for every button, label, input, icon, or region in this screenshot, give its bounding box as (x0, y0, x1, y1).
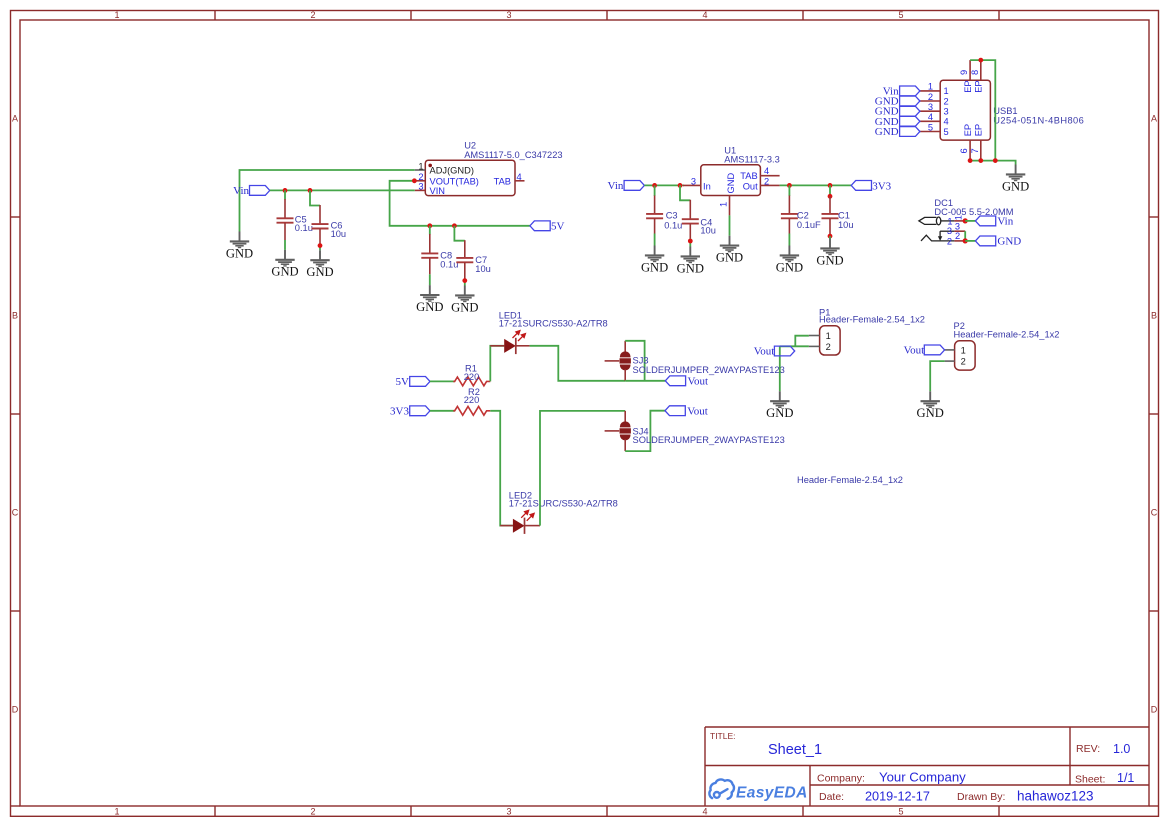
svg-text:Out: Out (743, 182, 758, 192)
junction 5V rail at C8 (427, 223, 432, 228)
capacitor C2 (781, 196, 798, 234)
junction bottom rail pin7 (978, 158, 983, 163)
ground P1 (766, 391, 793, 420)
junction Out rail at C1 (828, 183, 833, 188)
svg-text:220: 220 (464, 372, 480, 382)
svg-text:5V: 5V (396, 376, 410, 388)
svg-text:1.0: 1.0 (1113, 742, 1130, 756)
P2 pin 1 stub (945, 349, 955, 351)
USB1 pin 2 stub (920, 100, 940, 102)
U2 pin 1 dot (428, 164, 432, 168)
capacitor C3 (646, 196, 663, 234)
svg-text:Your Company: Your Company (879, 770, 966, 785)
wire C6 top L (310, 190, 320, 205)
svg-text:0.1u: 0.1u (440, 259, 458, 269)
junction top EP rail pin8 (978, 58, 983, 63)
capacitor C5 (277, 199, 294, 240)
LED2 cathode bar (524, 518, 526, 534)
svg-text:2: 2 (418, 172, 423, 182)
capacitor C1 (822, 196, 839, 236)
P2 pin 2 stub (945, 360, 955, 362)
DC1 pin 3 switch symbol (940, 231, 954, 237)
svg-text:Vout: Vout (754, 346, 775, 358)
regulator U2 box (425, 160, 515, 195)
svg-text:0.1uF: 0.1uF (797, 220, 821, 230)
USB1 pin 3 stub (920, 110, 940, 112)
svg-text:2: 2 (764, 176, 769, 186)
svg-text:C1: C1 (838, 211, 850, 221)
svg-text:Sheet:: Sheet: (1075, 774, 1105, 786)
SJ3 loop wire to Vout (625, 341, 644, 381)
USB connector USB1 box (940, 80, 990, 140)
junction In rail at C4 (678, 183, 683, 188)
net flag GND (USB pin3) (900, 106, 920, 116)
svg-text:VOUT(TAB): VOUT(TAB) (430, 176, 479, 186)
junction In rail at C3 (652, 183, 657, 188)
svg-text:Sheet_1: Sheet_1 (768, 742, 822, 758)
svg-text:3: 3 (691, 176, 696, 186)
ground left of Vin (226, 232, 253, 261)
wire R2 to LED2 (490, 411, 513, 526)
svg-text:EP: EP (963, 124, 973, 136)
SJ4 loop wire to Vout (625, 411, 665, 451)
svg-text:2: 2 (955, 231, 960, 241)
ground C2 (776, 246, 803, 275)
LED1 anode stub (490, 345, 504, 347)
wire C4 top L (680, 185, 690, 200)
wire C1 top (829, 185, 831, 197)
USB1 pin 1 stub (920, 90, 940, 92)
svg-text:4: 4 (702, 10, 707, 20)
svg-text:hahawoz123: hahawoz123 (1017, 789, 1094, 804)
net flag 5V (R1) (410, 377, 430, 387)
wire U1 pin1 to ground (729, 215, 731, 235)
U1 pin 4 stub TAB (760, 175, 779, 177)
U1 pin 3 stub (683, 184, 701, 186)
svg-text:10u: 10u (475, 264, 491, 274)
junction Out rail at C2 (787, 183, 792, 188)
svg-text:D: D (12, 705, 19, 715)
frame column labels bottom (114, 807, 903, 817)
svg-text:VIN: VIN (430, 186, 446, 196)
U2 pin 2 stub (417, 180, 426, 182)
svg-text:TITLE:: TITLE: (710, 731, 736, 741)
wire C8 top (429, 226, 431, 235)
svg-text:4: 4 (928, 112, 933, 122)
ground C5 (271, 250, 298, 279)
P1 pin 2 stub (809, 345, 820, 347)
SJ4 top pad (620, 421, 631, 427)
DC1 pin 3 arrowhead (938, 236, 942, 241)
frame row ticks right (1149, 217, 1159, 611)
C6 pin end dot (318, 243, 323, 248)
svg-text:Vout: Vout (688, 376, 709, 388)
SJ3 center pad (620, 358, 631, 363)
wire C8 bottom (429, 274, 431, 285)
svg-text:Vout: Vout (687, 406, 708, 418)
svg-text:Header-Female-2.54_1x2: Header-Female-2.54_1x2 (819, 315, 925, 325)
wire C5 top (284, 190, 286, 199)
svg-text:5: 5 (944, 127, 949, 137)
junction on Vin rail at C5 (283, 188, 288, 193)
svg-text:5V: 5V (551, 221, 565, 233)
svg-text:GND: GND (997, 236, 1021, 248)
wire ADJ to ground rail (240, 170, 415, 232)
wire P1 to ground (779, 346, 781, 391)
svg-text:1: 1 (418, 161, 423, 171)
net flag Vout (SJ3) (665, 376, 685, 386)
junction 5V rail at C7 (452, 223, 457, 228)
SJ4 left stub (605, 430, 620, 432)
svg-text:220: 220 (464, 395, 480, 405)
svg-text:2: 2 (826, 342, 831, 352)
svg-text:0.1u: 0.1u (295, 223, 313, 233)
svg-text:C: C (1151, 508, 1158, 518)
svg-text:ADJ(GND): ADJ(GND) (430, 166, 474, 176)
solder jumper SJ4 top pin (624, 411, 626, 423)
svg-text:B: B (12, 311, 18, 321)
junction on Vin rail at C6 (308, 188, 313, 193)
frame column ticks bottom (10, 806, 1159, 816)
wire USB top EP rail (970, 60, 995, 161)
svg-text:5: 5 (898, 807, 903, 817)
C1 bottom pin dot (828, 234, 833, 239)
LED2 cathode stub (525, 525, 541, 527)
capacitor C6 (312, 205, 329, 244)
ground USB (1002, 165, 1029, 194)
ground C8 (416, 285, 443, 314)
USB1 pin 8 stub top (980, 60, 982, 80)
SJ3 bottom pad (620, 364, 631, 370)
svg-text:4: 4 (764, 166, 769, 176)
svg-text:In: In (703, 182, 711, 192)
svg-text:17-21SURC/S530-A2/TR8: 17-21SURC/S530-A2/TR8 (499, 319, 608, 329)
wire C3 top (654, 185, 656, 196)
svg-text:17-21SURC/S530-A2/TR8: 17-21SURC/S530-A2/TR8 (509, 498, 618, 508)
frame column labels top (114, 10, 903, 20)
net flag GND (DC1) (975, 236, 995, 246)
svg-text:SJ3: SJ3 (633, 356, 649, 366)
wire LED2 to SJ4 top rail (540, 411, 625, 526)
U1 pin 2 stub Out (760, 184, 779, 186)
DC1 barrel pin symbol (919, 217, 955, 225)
svg-text:A: A (12, 114, 18, 124)
net flag GND (USB pin5) (900, 127, 920, 137)
U2 pin 3 stub (415, 189, 426, 191)
resistor R1 (453, 377, 490, 386)
wire Vin to U2 pin 3 (270, 189, 415, 191)
svg-text:2: 2 (310, 807, 315, 817)
ground C4 (677, 247, 704, 276)
SJ3 left stub (605, 360, 620, 362)
wire C1 bottom (829, 236, 831, 238)
wire SJ3 to Vout flag (625, 380, 665, 382)
svg-text:A: A (1151, 114, 1157, 124)
svg-text:Drawn By:: Drawn By: (957, 791, 1005, 803)
net flag Vin (U2) (249, 186, 269, 196)
svg-text:Vin: Vin (997, 216, 1013, 228)
net flag 3V3 (R2) (410, 406, 430, 416)
svg-text:10u: 10u (700, 225, 716, 235)
C4 pin end dot (688, 239, 693, 244)
wire 3V3 to R2 (430, 410, 455, 412)
svg-text:REV:: REV: (1076, 743, 1100, 755)
USB1 pin 5 stub (920, 131, 940, 133)
C7 pin end dot (462, 278, 467, 283)
svg-text:2: 2 (947, 237, 952, 247)
wire U2 VOUT to 5V rail (390, 181, 530, 226)
svg-text:Date:: Date: (819, 791, 844, 803)
svg-text:3: 3 (506, 807, 511, 817)
net flag Vout (SJ4) (665, 406, 685, 416)
capacitor C8 (421, 234, 438, 274)
header P1 box (820, 326, 841, 355)
P1 pin 1 stub (809, 335, 820, 337)
capacitor C4 (682, 200, 699, 239)
solder jumper SJ3 top pin (624, 341, 626, 353)
wire Vin to U1 In (644, 184, 684, 186)
svg-text:C: C (12, 508, 19, 518)
frame row labels right (1151, 114, 1158, 715)
LED1 cathode bar (515, 338, 517, 354)
svg-text:4: 4 (517, 172, 522, 182)
svg-text:5: 5 (898, 10, 903, 20)
ground C6 (306, 250, 333, 279)
C1 top pin dot (828, 194, 833, 199)
svg-text:1: 1 (961, 345, 966, 355)
net flag Vin (DC1) (975, 216, 995, 226)
resistor R2 (453, 406, 490, 415)
svg-text:2: 2 (944, 96, 949, 106)
svg-text:3V3: 3V3 (390, 406, 409, 418)
net flag GND (USB pin4) (900, 116, 920, 126)
wire P1 pin1 riser (795, 336, 809, 347)
svg-text:1/1: 1/1 (1117, 771, 1134, 785)
svg-text:TAB: TAB (740, 171, 757, 181)
svg-text:U254-051N-4BH806: U254-051N-4BH806 (993, 116, 1084, 126)
net flag Vout (P2) (924, 345, 944, 355)
svg-text:AMS1117-5.0_C347223: AMS1117-5.0_C347223 (464, 150, 562, 160)
svg-text:4: 4 (944, 117, 949, 127)
svg-text:SOLDERJUMPER_2WAYPASTE123: SOLDERJUMPER_2WAYPASTE123 (633, 365, 785, 375)
svg-text:3: 3 (418, 182, 423, 192)
svg-text:3V3: 3V3 (872, 180, 891, 192)
wire C6 bottom (319, 244, 321, 251)
svg-text:1: 1 (826, 331, 831, 341)
DC1 pin 2 sleeve symbol (921, 235, 954, 241)
svg-text:3: 3 (947, 226, 952, 236)
svg-text:EP: EP (963, 80, 973, 92)
wire C2 bottom (788, 234, 790, 246)
wire DC1 pin3 to pin2 net (964, 231, 966, 241)
wire C2 top (788, 185, 790, 196)
svg-text:2: 2 (928, 92, 933, 102)
wire DC1 pin1 to Vin flag (965, 220, 975, 222)
svg-text:10u: 10u (838, 220, 854, 230)
frame row labels left (12, 114, 19, 715)
svg-text:1: 1 (928, 82, 933, 92)
svg-text:4: 4 (702, 807, 707, 817)
svg-text:GND: GND (875, 126, 899, 138)
net flag 3V3 (U1 out) (851, 181, 871, 191)
junction bottom rail corner (993, 158, 998, 163)
wire 5V to R1 (430, 380, 455, 382)
svg-text:GND: GND (726, 173, 736, 194)
net flag GND (USB pin2) (900, 96, 920, 106)
USB1 pin 9 stub top (969, 60, 971, 80)
svg-text:B: B (1151, 311, 1157, 321)
svg-text:1: 1 (114, 807, 119, 817)
LED1 cathode stub (516, 345, 530, 347)
ground C1 (816, 239, 843, 268)
header P2 box (955, 341, 976, 370)
ground P2 (917, 391, 944, 420)
wire C3 bottom (654, 234, 656, 246)
capacitor C7 (456, 240, 473, 279)
svg-text:2019-12-17: 2019-12-17 (865, 790, 930, 804)
U2 pin 1 stub (415, 169, 426, 171)
svg-text:3: 3 (955, 222, 960, 232)
svg-text:C3: C3 (666, 211, 678, 221)
ground C7 (451, 286, 478, 315)
svg-text:9: 9 (959, 70, 969, 75)
USB1 pin 4 stub (920, 120, 940, 122)
svg-text:0.1u: 0.1u (664, 221, 682, 231)
USB1 pin 6 stub bottom (969, 140, 971, 161)
svg-text:Company:: Company: (817, 773, 865, 785)
svg-text:10u: 10u (331, 229, 347, 239)
SJ3 top pad (620, 351, 631, 357)
svg-text:Header-Female-2.54_1x2: Header-Female-2.54_1x2 (797, 475, 903, 485)
svg-text:TAB: TAB (494, 176, 511, 186)
DC1 pin 1 junction dot (963, 218, 968, 223)
svg-text:1: 1 (944, 86, 949, 96)
svg-text:8: 8 (970, 70, 980, 75)
LED1 triangle (504, 339, 516, 353)
ground U1 pin1 (716, 236, 743, 265)
svg-text:D: D (1151, 705, 1158, 715)
SJ4 center pad (620, 428, 631, 433)
svg-text:EasyEDA: EasyEDA (736, 785, 808, 802)
junction bottom rail pin6 (968, 158, 973, 163)
net flag 5V (U2 out) (530, 221, 550, 231)
svg-text:AMS1117-3.3: AMS1117-3.3 (724, 155, 779, 165)
SJ4 bottom pin (624, 439, 626, 451)
svg-text:Header-Female-2.54_1x2: Header-Female-2.54_1x2 (954, 330, 1060, 340)
svg-text:EP: EP (974, 80, 984, 92)
wire LED1 to SJ3 bottom rail (530, 346, 626, 381)
wire C7 bottom (464, 279, 466, 286)
frame row ticks left (10, 217, 20, 611)
DC1 pin 1 stub (954, 220, 963, 222)
U1 pin 1 stub GND (729, 196, 731, 216)
svg-text:6: 6 (959, 148, 969, 153)
wire C4 bottom (689, 239, 691, 247)
DC1 pin 2 stub (954, 240, 963, 242)
wire R1 to LED1 (490, 346, 504, 382)
svg-text:1: 1 (114, 10, 119, 20)
svg-text:1: 1 (719, 202, 729, 207)
wire C7 top L (454, 226, 464, 241)
svg-text:7: 7 (970, 148, 980, 153)
DC1 pin 3 stub (954, 230, 965, 232)
wire USB bottom EP rail to ground (970, 161, 1016, 165)
svg-text:2: 2 (310, 10, 315, 20)
LED2 emission arrows (521, 510, 534, 520)
svg-text:C2: C2 (797, 211, 809, 221)
wire DC1 pin2 to GND flag (965, 240, 975, 242)
net flag Vout (P1) (774, 346, 794, 356)
EasyEDA logo cloud (709, 779, 734, 798)
svg-text:Vin: Vin (233, 185, 249, 197)
SJ3 bottom pin (624, 369, 626, 381)
wire P2 pin2 to ground (930, 361, 944, 391)
wire U1 Out to 3V3 (780, 184, 852, 186)
svg-text:3: 3 (928, 102, 933, 112)
svg-text:Vout: Vout (904, 345, 925, 357)
svg-text:USB1: USB1 (993, 106, 1017, 116)
wire C5 bottom (284, 240, 286, 250)
DC1 pin 2 junction dot (963, 238, 968, 243)
LED1 emission arrows (513, 331, 526, 341)
title block frame (705, 727, 1149, 806)
LED2 triangle (513, 519, 525, 533)
LED2 anode stub (500, 525, 513, 527)
svg-text:3: 3 (506, 10, 511, 20)
svg-text:SOLDERJUMPER_2WAYPASTE123: SOLDERJUMPER_2WAYPASTE123 (633, 435, 785, 445)
U2 pin 2 end dot (412, 178, 417, 183)
ground C3 (641, 246, 668, 275)
wire P1 pin2 rail (780, 345, 809, 347)
svg-text:1: 1 (953, 215, 963, 220)
svg-text:3: 3 (944, 107, 949, 117)
svg-text:Vin: Vin (608, 180, 624, 192)
USB1 pin 7 stub bottom (980, 140, 982, 161)
frame column ticks top (215, 10, 999, 20)
regulator U1 box (701, 165, 761, 196)
net flag Vin (USB pin1) (900, 86, 920, 96)
svg-text:2: 2 (961, 357, 966, 367)
svg-text:EP: EP (974, 124, 984, 136)
SJ4 bottom pad (620, 434, 631, 440)
U2 pin 4 stub (515, 180, 525, 182)
net flag Vin (U1) (624, 181, 644, 191)
svg-text:5: 5 (928, 122, 933, 132)
